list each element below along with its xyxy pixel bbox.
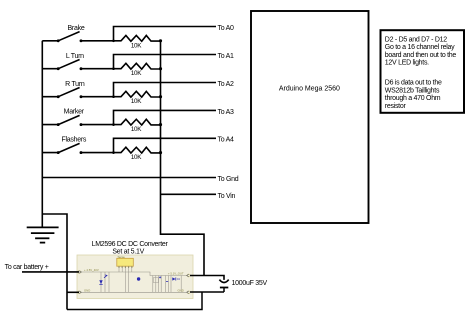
wire To Vin line [161, 193, 217, 195]
svg-text:GND: GND [84, 289, 90, 293]
svg-text:10K: 10K [131, 126, 142, 133]
svg-text:To Gnd: To Gnd [218, 176, 239, 183]
label To car battery + [5, 264, 49, 271]
wire rail to switch S1 [42, 40, 58, 42]
resistor R3 10K [114, 91, 161, 97]
switch S4 "Marker" [57, 115, 83, 126]
svg-text:R Turn: R Turn [65, 81, 85, 88]
label pin To A0 [218, 25, 235, 32]
label switch S4 "Marker" [64, 109, 85, 116]
ground [27, 227, 59, 242]
svg-text:board and then out to the: board and then out to the [385, 52, 457, 59]
junction resistor R2 / +5V rail [159, 67, 162, 70]
module LM2596 DC DC converter PCB [77, 255, 193, 299]
junction resistor R1 / +5V rail [159, 39, 162, 42]
svg-text:To car battery +: To car battery + [5, 264, 49, 271]
label resistor R3 value 10K [131, 98, 142, 105]
wire rail to switch S2 [42, 68, 58, 70]
svg-text:Sense: Sense [118, 255, 126, 259]
junction switch/resistor/pin node row 4 [112, 123, 115, 126]
resistor R5 10K [114, 147, 161, 153]
wire ground return bottom loop [67, 292, 202, 310]
wire switch S4 to node [81, 124, 114, 126]
wire switch S3 to node [81, 96, 114, 98]
label LM2596 DC DC Converter [92, 241, 169, 255]
wire rail to switch S4 [42, 124, 58, 126]
junction resistor R3 / +5V rail [159, 95, 162, 98]
label switch S1 "Brake" [68, 25, 85, 32]
capacitor C1 1000uF 35V [219, 280, 228, 292]
wire switch S2 to node [81, 68, 114, 70]
wire node to pin To A4 [114, 138, 217, 152]
svg-text:through a 470 Ohm: through a 470 Ohm [385, 95, 441, 102]
svg-text:10K: 10K [131, 42, 142, 49]
wire switch S5 to node [81, 152, 114, 154]
svg-text:WS2812b Taillights: WS2812b Taillights [385, 87, 440, 94]
svg-text:D2: D2 [177, 277, 181, 281]
switch S5 "Flashers" [57, 143, 83, 154]
label pin To A2 [218, 81, 235, 88]
svg-text:Marker: Marker [64, 109, 85, 116]
junction switch/resistor/pin node row 3 [112, 95, 115, 98]
wire +5V rail (resistors to converter +OUT) [161, 41, 205, 276]
label resistor R1 value 10K [131, 42, 142, 49]
wire node to pin To A0 [114, 27, 217, 41]
label pin To A1 [218, 53, 235, 60]
wire car battery + to converter +IN [22, 271, 79, 273]
resistor R1 10K [114, 35, 161, 41]
wire ground rail branch to converter -IN loop [42, 214, 67, 310]
svg-text:10K: 10K [131, 70, 142, 77]
resistor R4 10K [114, 119, 161, 125]
junction switch/resistor/pin node row 1 [112, 39, 115, 42]
label pin To A4 [218, 137, 235, 144]
svg-text:D2 - D5 and D7 - D12: D2 - D5 and D7 - D12 [385, 37, 447, 44]
label pin To A3 [218, 109, 235, 116]
wire ground loop to converter -IN [67, 291, 79, 293]
junction switch/resistor/pin node row 5 [112, 151, 115, 154]
svg-text:To A4: To A4 [218, 137, 235, 144]
svg-text:resistor: resistor [385, 103, 407, 110]
wire node to pin To A1 [114, 55, 217, 69]
label pin To Gnd [218, 176, 239, 183]
svg-text:LM2596 DC DC Converter: LM2596 DC DC Converter [92, 241, 169, 248]
wire converter -OUT to capacitor [190, 291, 224, 293]
label switch S3 "R Turn" [65, 81, 85, 88]
svg-text:D6 is data out to the: D6 is data out to the [385, 80, 442, 87]
junction switch/resistor/pin node row 2 [112, 67, 115, 70]
label switch S2 "L Turn" [66, 53, 84, 60]
svg-text:GND: GND [178, 289, 184, 293]
wire converter +OUT to capacitor [190, 276, 224, 280]
junction resistor R5 / +5V rail [159, 151, 162, 154]
svg-text:L Turn: L Turn [66, 53, 84, 60]
svg-text:1000uF 35V: 1000uF 35V [232, 280, 268, 287]
wire node to pin To A2 [114, 83, 217, 97]
wire rail to switch S5 [42, 152, 58, 154]
label resistor R4 value 10K [131, 126, 142, 133]
svg-text:Brake: Brake [68, 25, 85, 32]
svg-text:Flashers: Flashers [61, 137, 86, 144]
svg-text:10K: 10K [131, 154, 142, 161]
label switch S5 "Flashers" [61, 137, 86, 144]
svg-text:+ 4.5V_40V: + 4.5V_40V [84, 268, 99, 272]
label capacitor C1 value 1000uF 35V [232, 280, 268, 287]
note box D2-D12 description [381, 30, 465, 113]
label pin To Vin [218, 193, 236, 200]
svg-text:+ 5.1V_OUT: + 5.1V_OUT [168, 272, 184, 276]
svg-text:Arduino Mega 2560: Arduino Mega 2560 [279, 86, 340, 93]
label resistor R5 value 10K [131, 154, 142, 161]
junction resistor R4 / +5V rail [159, 123, 162, 126]
label resistor R2 value 10K [131, 70, 142, 77]
resistor R2 10K [114, 63, 161, 69]
label Arduino Mega 2560 [279, 86, 340, 93]
wire switch S1 to node [81, 40, 114, 42]
svg-text:12V LED lights.: 12V LED lights. [385, 60, 429, 67]
svg-text:Go to a 16 channel relay: Go to a 16 channel relay [385, 44, 455, 51]
svg-text:To A3: To A3 [218, 109, 235, 116]
wire left ground rail [41, 41, 43, 228]
svg-text:10K: 10K [131, 98, 142, 105]
switch S1 "Brake" [57, 32, 83, 43]
IC U1 Arduino Mega 2560 box [251, 11, 369, 223]
svg-text:To A2: To A2 [218, 81, 235, 88]
svg-text:To A0: To A0 [218, 25, 235, 32]
wire To Gnd line [42, 177, 216, 179]
switch S3 "R Turn" [57, 88, 83, 99]
wire node to pin To A3 [114, 110, 217, 124]
svg-text:To Vin: To Vin [218, 193, 236, 200]
wire rail to switch S3 [42, 96, 58, 98]
svg-text:To A1: To A1 [218, 53, 235, 60]
switch S2 "L Turn" [57, 60, 83, 71]
